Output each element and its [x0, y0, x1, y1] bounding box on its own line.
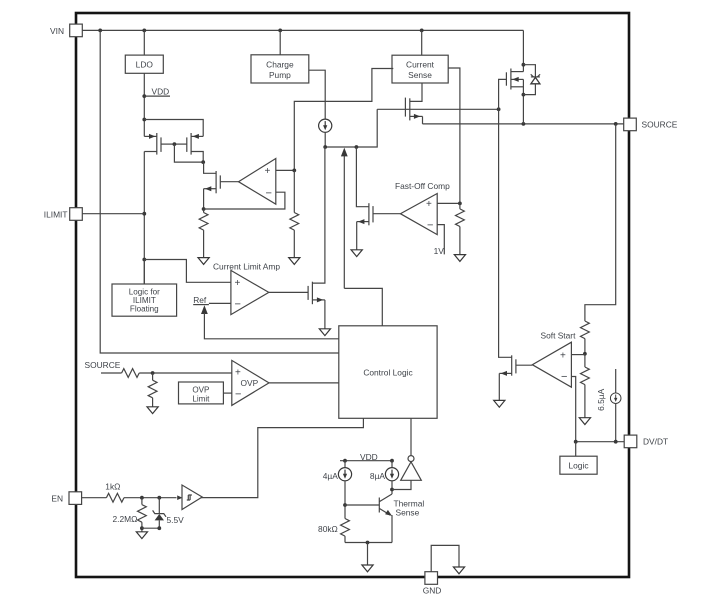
node power FET gate [497, 107, 501, 111]
svg-text:8µA: 8µA [370, 471, 385, 481]
transistor Q4 fast-off pulldown [356, 147, 400, 250]
wire Ref feedback from control logic with up arrow [201, 305, 339, 339]
label current limit amp [213, 261, 280, 271]
diode body diode [523, 65, 540, 95]
svg-text:Logic: Logic [568, 461, 588, 471]
resistor 1k [105, 482, 176, 502]
wire current sense right to fast-off [448, 68, 460, 203]
wire EN to control logic [201, 418, 364, 497]
node ovp divider [151, 371, 155, 375]
svg-text:+: + [235, 278, 241, 289]
block logic for ILIMIT floating [112, 260, 177, 317]
block logic DVDT [560, 442, 597, 475]
ground below R sense left [198, 258, 209, 265]
ground below R ovp shunt [147, 407, 158, 414]
svg-text:Limit: Limit [192, 394, 210, 403]
wire current source to gate bus [324, 132, 326, 147]
svg-text:OVP: OVP [241, 378, 259, 388]
current source 4uA [323, 461, 352, 481]
svg-text:Floating: Floating [130, 305, 159, 314]
resistor 80k [318, 519, 349, 543]
wire gate drive bus [325, 109, 377, 147]
ground below 2.2M [136, 532, 147, 539]
ground GND hook [453, 567, 464, 574]
svg-text:Ref: Ref [193, 295, 207, 305]
node VIN rail junction 1 [98, 29, 102, 33]
svg-text:−: − [266, 188, 272, 200]
buffer EN schmitt trigger [177, 485, 202, 510]
wire U3 plus input [437, 202, 460, 204]
transistor mirror PMOS right [174, 133, 203, 162]
wire current sense left to amp input [294, 69, 393, 171]
svg-text:Control Logic: Control Logic [363, 367, 412, 377]
node U3 plus [458, 202, 462, 206]
resistor R sense left [199, 209, 208, 258]
svg-text:80kΩ: 80kΩ [318, 524, 338, 534]
node gate bus B [355, 145, 359, 149]
pin SOURCE [624, 118, 678, 131]
wire U5 minus to dvdt [571, 377, 575, 442]
node U1 plus [292, 169, 296, 173]
charge pump block [251, 30, 309, 83]
svg-text:+: + [235, 368, 241, 379]
wire gate line to FETs [377, 108, 498, 110]
node inverter output tie [390, 488, 394, 492]
current sense block [392, 30, 448, 83]
svg-text:1kΩ: 1kΩ [105, 482, 120, 492]
node VDD rail left [343, 459, 347, 463]
wire EN pin to 1k [82, 497, 107, 499]
wire U2 minus input [209, 302, 231, 304]
pin DV/DT [624, 435, 668, 448]
node ILIMIT junction [142, 212, 146, 216]
node power FET drain [522, 63, 526, 67]
svg-text:1V: 1V [434, 246, 445, 256]
svg-text:−: − [235, 299, 241, 311]
ground below R sense right [289, 258, 300, 265]
svg-text:Sense: Sense [408, 70, 432, 80]
wire mirror gate to drain [174, 144, 203, 162]
svg-text:−: − [235, 389, 241, 401]
node EN ground tie [140, 526, 144, 530]
ground below R fast-off [454, 255, 465, 262]
wire mirror rail [144, 120, 203, 137]
resistor R ovp shunt [148, 373, 157, 407]
svg-text:VDD: VDD [152, 87, 170, 97]
svg-text:ILIMIT: ILIMIT [44, 209, 68, 219]
svg-text:EN: EN [51, 494, 63, 504]
resistor soft start top [581, 321, 590, 367]
wire OVP limit to comparator [223, 392, 231, 394]
wire SOURCE line [423, 123, 624, 125]
wire GND pin hook [431, 545, 459, 571]
ground below Q5 [494, 400, 505, 407]
node EN zener tap [157, 496, 161, 500]
wire VDD rail bias [340, 452, 392, 462]
current source 6.5uA [596, 369, 621, 442]
inverter thermal shutdown [392, 418, 421, 489]
svg-text:−: − [427, 219, 433, 231]
current source I1 (charge pump) [319, 119, 332, 132]
svg-text:6.5µA: 6.5µA [596, 388, 606, 410]
wire charge pump to current source [309, 70, 325, 119]
wire U1 plus input [276, 169, 295, 171]
svg-text:Current Limit Amp: Current Limit Amp [213, 261, 280, 271]
comparator U3 fast-off (mirrored) [400, 194, 437, 235]
label Ref [193, 295, 209, 305]
resistor soft start bottom [581, 367, 590, 418]
wire current sense bottom to sense FET [410, 83, 422, 101]
wire OVP output to control logic [269, 382, 339, 384]
svg-text:Sense: Sense [396, 507, 420, 517]
svg-text:Soft Start: Soft Start [541, 331, 577, 341]
wire VDD from LDO [143, 73, 145, 136]
wire VIN monitor to control logic [100, 30, 339, 353]
wire U3 minus to 1V ref [434, 225, 445, 256]
wire source to soft start divider [585, 124, 616, 321]
node thermal base [343, 503, 347, 507]
label soft start [541, 331, 577, 341]
svg-text:2.2MΩ: 2.2MΩ [113, 514, 138, 524]
wire ILIMIT pin to column [82, 213, 144, 215]
svg-text:4µA: 4µA [323, 471, 338, 481]
wire U1 minus feedback [204, 192, 285, 209]
transistor Q5 soft start clamp [499, 109, 533, 400]
wire control logic to gate bus with up arrow [341, 148, 382, 326]
pin VIN [50, 24, 82, 37]
wire U5 plus input [571, 354, 585, 356]
node soft start plus [583, 352, 587, 356]
resistor R ovp series [122, 369, 232, 378]
node VDD rail right [390, 459, 394, 463]
svg-text:−: − [561, 371, 567, 383]
node EN divider [140, 496, 144, 500]
wire DVDT line [576, 441, 625, 443]
node SOURCE power FET [522, 122, 526, 126]
node VIN rail junction 3 [278, 29, 282, 33]
node VDD mirror tap [142, 118, 146, 122]
svg-text:GND: GND [423, 585, 442, 595]
label SOURCE net [85, 360, 121, 370]
svg-text:5.5V: 5.5V [167, 515, 185, 525]
ground below Q4 [351, 250, 362, 257]
node DVDT logic [574, 440, 578, 444]
node SOURCE soft-start branch [614, 122, 618, 126]
svg-text:SOURCE: SOURCE [642, 120, 678, 130]
wire ground stem thermal [367, 543, 369, 566]
node VIN rail junction 4 [420, 29, 424, 33]
node mirror drain [201, 160, 205, 164]
wire 8uA to collector node [391, 481, 393, 494]
label fast-off comp [395, 181, 450, 191]
node Q3 source [202, 207, 206, 211]
comparator U4 OVP [232, 360, 269, 405]
pin EN [51, 492, 81, 505]
svg-text:SOURCE: SOURCE [85, 360, 121, 370]
svg-text:+: + [560, 350, 566, 361]
node current limit tap [142, 258, 146, 262]
resistor R fast-off [456, 203, 465, 254]
zener 5.5V [142, 498, 184, 530]
wire VIN top rail [82, 29, 523, 31]
node power FET source [522, 93, 526, 97]
pin ILIMIT [44, 208, 83, 221]
wire 4uA to base node [344, 481, 346, 519]
svg-text:Current: Current [406, 60, 435, 70]
resistor R sense right [290, 213, 299, 258]
svg-text:OVP: OVP [192, 386, 209, 395]
wire rail to power FET drain [522, 30, 524, 71]
node gate bus A [323, 145, 327, 149]
wire VDD down left column [143, 152, 145, 285]
block control logic [339, 326, 437, 419]
transistor sense FET [405, 98, 422, 124]
transistor thermal sense NPN [345, 494, 424, 543]
transistor cascode FET Q3 [203, 162, 238, 209]
wire U1 plus column [293, 170, 295, 212]
pin GND [423, 572, 442, 596]
node VIN rail junction 2 [142, 29, 146, 33]
ground thermal [362, 565, 373, 572]
svg-text:+: + [265, 166, 271, 177]
transistor mirror PMOS left [144, 133, 174, 155]
comparator U5 soft start (mirrored) [532, 342, 571, 387]
resistor 2.2M [113, 498, 147, 532]
svg-text:Pump: Pump [269, 70, 291, 80]
current source 8uA [370, 461, 399, 481]
node thermal ground tap [366, 541, 370, 545]
ground below soft start divider [579, 418, 590, 425]
wire U2 plus input from tap [144, 260, 231, 283]
node DVDT source [614, 440, 618, 444]
svg-text:+: + [426, 199, 432, 210]
svg-text:Fast-Off Comp: Fast-Off Comp [395, 181, 450, 191]
transistor power FET [499, 69, 524, 124]
transistor Q7 current limit output [269, 147, 325, 329]
svg-text:VDD: VDD [360, 452, 378, 462]
svg-text:Charge: Charge [266, 59, 294, 69]
LDO block [125, 30, 163, 73]
svg-text:LDO: LDO [136, 60, 154, 70]
node mirror gates [173, 142, 177, 146]
IC outline border [76, 13, 629, 577]
block OVP limit [179, 382, 224, 404]
ground below Q7 [319, 329, 330, 336]
svg-text:DV/DT: DV/DT [643, 437, 668, 447]
op-amp U2 current limit amp [231, 270, 269, 314]
op-amp U1 current limit sense (mirrored) [239, 159, 276, 205]
wire source sense input [101, 372, 122, 374]
svg-text:VIN: VIN [50, 26, 64, 36]
wire thermal bottom rail [345, 542, 392, 544]
node VDD [142, 87, 170, 98]
